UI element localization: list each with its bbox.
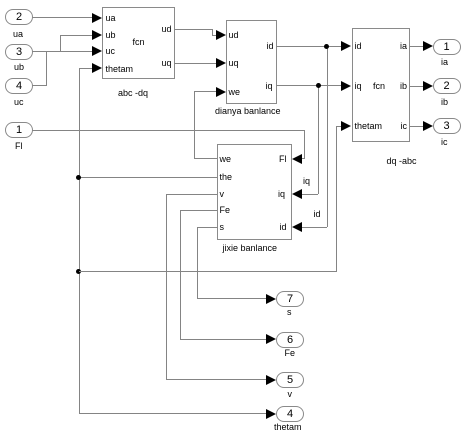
label fcn inside abc-dq	[133, 37, 145, 47]
wire ib: dq-abc to outport 2	[410, 86, 423, 87]
wire thetam: net to outport 4	[79, 413, 267, 414]
port label iq	[265, 81, 272, 91]
label id on wire	[314, 209, 321, 219]
wire ub: inport 3 to abc-dq	[32, 51, 61, 52]
port arrow uc of abc-dq	[92, 46, 102, 56]
wire id: dianya to dq-abc and jixie	[276, 46, 341, 47]
outport 7 (s)	[276, 291, 304, 307]
port label we	[220, 154, 232, 164]
junction dot iq	[316, 83, 321, 88]
port label id (jixie)	[279, 222, 286, 232]
label iq on wire	[303, 176, 310, 186]
port label id	[266, 41, 273, 51]
port arrow uq of dianya	[216, 58, 226, 68]
junction dot id	[324, 44, 329, 49]
label ic	[441, 137, 448, 147]
port label id (dq-abc)	[355, 41, 362, 51]
arrow into outport 6	[266, 334, 276, 344]
port label ua	[106, 13, 116, 23]
port label thetam (dq-abc)	[355, 121, 383, 131]
arrow into outport 4	[266, 409, 276, 419]
block dq-abc (fcn)	[352, 28, 411, 142]
arrow into outport 3	[423, 121, 433, 131]
wire s: jixie to outport 7	[197, 227, 218, 228]
block name dq-abc	[387, 156, 417, 166]
label s	[287, 307, 292, 317]
label ib	[441, 97, 448, 107]
port arrow ud of dianya	[216, 30, 226, 40]
outport 3 (ic)	[433, 118, 461, 134]
junction dot thetam branch	[76, 269, 81, 274]
port arrow ua of abc-dq	[92, 13, 102, 23]
arrow into outport 2	[423, 81, 433, 91]
wire ia: dq-abc to outport 1	[410, 46, 423, 47]
port label ud	[229, 30, 239, 40]
port label iq (jixie)	[278, 189, 285, 199]
wire uc: inport 4 to abc-dq	[32, 85, 46, 86]
inport 2 (ua)	[5, 9, 33, 25]
wire thetam branch to dq-abc	[79, 271, 337, 272]
port arrow id of dq-abc	[341, 41, 351, 51]
port label v	[220, 189, 225, 199]
wire ic: dq-abc to outport 3	[410, 126, 423, 127]
port label the	[220, 172, 233, 182]
port label Fl	[279, 154, 287, 164]
port arrow we of dianya	[216, 87, 226, 97]
block name abc-dq	[118, 88, 148, 98]
label ub	[14, 62, 24, 72]
port arrow iq of dq-abc	[341, 81, 351, 91]
port arrow thetam of abc-dq	[92, 63, 102, 73]
wire thetam stub into abc-dq	[79, 68, 93, 69]
label fcn inside dq-abc	[373, 81, 385, 91]
inport 1 (Fl)	[5, 122, 33, 138]
wire we: jixie to dianya	[194, 91, 217, 92]
wire the: jixie to thetam net	[79, 177, 218, 178]
block abc-dq (fcn)	[102, 7, 175, 79]
port label iq (dq-abc)	[355, 81, 362, 91]
outport 6 (Fe)	[276, 332, 304, 348]
wire Fl: inport 1 to jixie	[32, 130, 305, 131]
port arrow Fl of jixie (right side)	[292, 154, 302, 164]
port label thetam	[106, 64, 134, 74]
wire iq: dianya to dq-abc and jixie	[276, 85, 341, 86]
port label Fe	[220, 205, 231, 215]
port label s	[220, 222, 225, 232]
thetam net vertical	[79, 68, 80, 414]
block dianya banlance	[226, 20, 277, 104]
label ia	[441, 57, 448, 67]
port arrow ub of abc-dq	[92, 30, 102, 40]
block name dianya banlance	[215, 106, 281, 116]
label thetam	[274, 422, 302, 432]
port label uc	[106, 46, 116, 56]
port label we	[229, 87, 241, 97]
wire Fe: jixie to outport 6	[180, 210, 217, 211]
outport 4 (thetam)	[276, 406, 304, 422]
port arrow id of jixie (right side)	[292, 222, 302, 232]
wire uq: abc-dq to dianya	[174, 63, 216, 64]
port arrow thetam of dq-abc	[341, 121, 351, 131]
label uc	[14, 97, 24, 107]
outport 1 (ia)	[433, 39, 461, 55]
wire ud: abc-dq to dianya	[174, 29, 212, 30]
outport 5 (v)	[276, 372, 304, 388]
wire v: jixie to outport 5	[166, 194, 217, 195]
port label ub	[106, 30, 116, 40]
inport 3 (ub)	[5, 44, 33, 60]
junction dot the	[76, 175, 81, 180]
port arrow iq of jixie (right side)	[292, 189, 302, 199]
block name jixie banlance	[223, 243, 278, 253]
arrow into outport 5	[266, 375, 276, 385]
inport 4 (uc)	[5, 78, 33, 94]
label v	[288, 389, 293, 399]
port label uq	[229, 58, 239, 68]
port label ia	[400, 41, 407, 51]
arrow into outport 7	[266, 294, 276, 304]
port label ic	[401, 121, 408, 131]
label Fl	[15, 141, 23, 151]
outport 2 (ib)	[433, 78, 461, 94]
port label ib	[400, 81, 407, 91]
label Fe	[285, 348, 296, 358]
wire ua: inport 2 to abc-dq	[32, 17, 92, 18]
port label ud	[161, 24, 171, 34]
label ua	[13, 29, 23, 39]
port label uq	[161, 58, 171, 68]
arrow into outport 1	[423, 41, 433, 51]
block jixie banlance	[217, 144, 292, 240]
